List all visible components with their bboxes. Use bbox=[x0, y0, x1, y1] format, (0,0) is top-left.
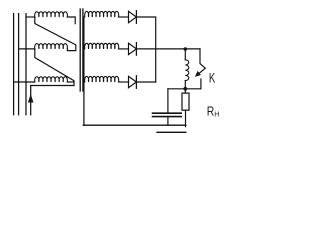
svg-text:R: R bbox=[207, 105, 215, 119]
svg-text:H: H bbox=[214, 110, 219, 119]
svg-text:K: K bbox=[209, 70, 215, 85]
